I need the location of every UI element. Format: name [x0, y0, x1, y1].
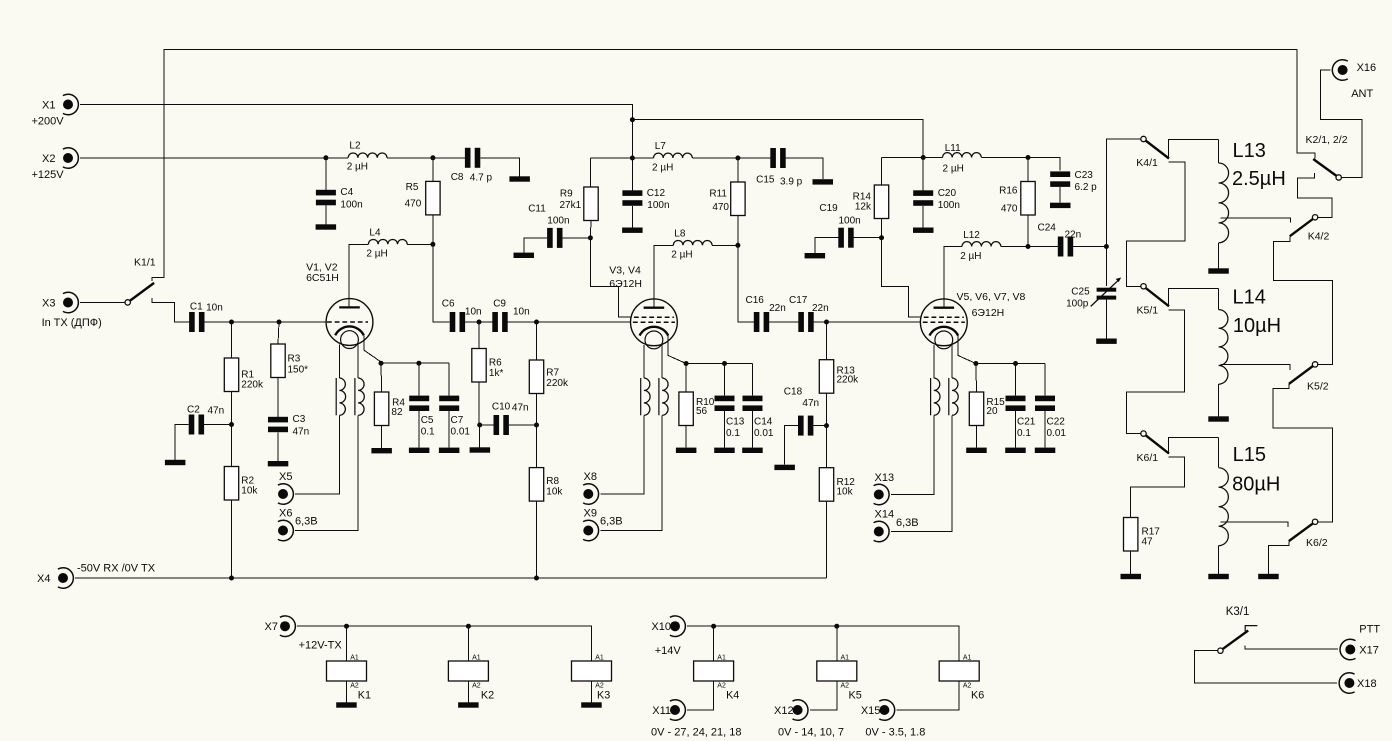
inductor L15 [1219, 444, 1281, 546]
wire cathode V3 [668, 336, 686, 364]
svg-text:220k: 220k [546, 378, 569, 389]
wire +14V rail [687, 626, 959, 661]
wire K4/1 contact to L13 [1169, 140, 1219, 159]
wire K5/2 cascade to K6/2 [1273, 384, 1332, 522]
capacitor C25 variable [1066, 278, 1121, 310]
svg-text:PTT: PTT [1359, 624, 1380, 636]
svg-text:10µH: 10µH [1233, 315, 1281, 337]
ground R4 [371, 448, 392, 453]
node C21 top [1013, 361, 1018, 366]
wire C11 right [563, 237, 591, 239]
wire K3/1 pivot to X18 [1195, 651, 1338, 683]
relay coil K3 [572, 655, 612, 702]
resistor R14 [853, 185, 889, 219]
ground R6 node [470, 447, 491, 452]
ground R17 [1121, 574, 1142, 579]
wire X15 to K6 [897, 681, 960, 710]
wire C3 to ground [277, 432, 279, 461]
switch K1/1 [125, 256, 156, 305]
resistor R16 [999, 182, 1035, 216]
svg-text:X4: X4 [37, 573, 50, 585]
svg-text:L14: L14 [1233, 287, 1266, 309]
capacitor C23 [1050, 170, 1097, 193]
svg-text:X2: X2 [42, 153, 55, 165]
capacitor C13 [715, 396, 745, 439]
connector X17 PTT [1340, 624, 1380, 660]
wire C12 stems [631, 158, 633, 228]
svg-text:C5: C5 [421, 415, 434, 426]
switch K6/2 [1289, 519, 1328, 549]
svg-text:C13: C13 [726, 416, 745, 427]
svg-text:X17: X17 [1359, 644, 1379, 656]
wire C21 stems [1015, 364, 1017, 448]
connector X11 [651, 700, 742, 739]
svg-text:C14: C14 [754, 416, 773, 427]
svg-text:X12: X12 [774, 705, 794, 717]
svg-text:X16: X16 [1357, 62, 1377, 74]
svg-text:C1: C1 [190, 302, 203, 313]
svg-text:K1/1: K1/1 [134, 256, 156, 268]
svg-text:0V - 27, 24, 21, 18: 0V - 27, 24, 21, 18 [651, 727, 742, 739]
svg-text:0.1: 0.1 [726, 428, 740, 439]
wire C22 stems [1044, 364, 1046, 448]
wire K1 stub [346, 626, 348, 661]
svg-text:L8: L8 [674, 229, 686, 240]
filament choke V3 right [659, 378, 668, 415]
resistor R5 [405, 181, 440, 215]
wire C10 to R7R8 node [509, 424, 537, 426]
svg-text:R1: R1 [241, 369, 254, 380]
wire X2 node to L2 [326, 157, 348, 159]
svg-text:A2: A2 [717, 683, 726, 690]
switch K3/1 [1218, 606, 1250, 653]
svg-text:470: 470 [712, 202, 729, 213]
connector X12 [774, 700, 844, 739]
svg-text:6С51Н: 6С51Н [306, 272, 339, 284]
wire cathode rail stage1 [381, 362, 449, 364]
resistor R4 [374, 392, 405, 426]
wire R11 stems [738, 158, 754, 322]
svg-text:R11: R11 [709, 189, 727, 200]
ground C14 [742, 448, 763, 453]
svg-text:K4/2: K4/2 [1308, 231, 1330, 243]
svg-text:2 µH: 2 µH [652, 162, 673, 173]
wire heater to X8 X9 [601, 415, 663, 530]
resistor R3 [271, 344, 308, 378]
wire R4 stems [380, 363, 383, 448]
connector X18 [1339, 673, 1376, 694]
svg-text:100n: 100n [340, 199, 362, 210]
node L2 C4 X2 [323, 155, 328, 160]
wire R12 stems [826, 426, 828, 578]
svg-text:2 µH: 2 µH [943, 164, 964, 175]
node R1 top [229, 320, 234, 325]
connector X5 [278, 471, 293, 505]
ground C8 [509, 176, 530, 181]
svg-text:10n: 10n [513, 307, 530, 318]
svg-text:K3/1: K3/1 [1226, 606, 1250, 618]
svg-text:X6: X6 [279, 507, 292, 519]
wire R5 node to C8 [433, 157, 465, 159]
wire C2 to ground [175, 425, 189, 460]
relay coil K2 [448, 655, 494, 702]
svg-text:10k: 10k [837, 487, 854, 498]
svg-text:K6/2: K6/2 [1306, 537, 1328, 549]
svg-text:X1: X1 [42, 100, 55, 112]
wire L12 right [1001, 246, 1028, 248]
node R6 C10 ground [477, 423, 482, 428]
node K5 coil [834, 624, 839, 629]
svg-text:K2: K2 [481, 690, 494, 702]
svg-text:2 µH: 2 µH [671, 250, 692, 261]
svg-text:10n: 10n [206, 302, 223, 313]
tube V3 V4 6Э12Н [609, 264, 677, 349]
wire L13 tap [1221, 218, 1291, 222]
wire C18 to ground [785, 426, 798, 465]
node C2 R1 R2 [229, 422, 234, 427]
wire K6/1 contact to L15 [1169, 437, 1219, 454]
svg-text:+200V: +200V [32, 116, 65, 128]
svg-text:K4/1: K4/1 [1136, 157, 1158, 169]
svg-text:C24: C24 [1038, 223, 1057, 234]
svg-text:C11: C11 [528, 203, 546, 214]
node K2 coil [466, 624, 471, 629]
capacitor C17 [789, 295, 829, 332]
svg-text:47: 47 [1142, 537, 1154, 548]
wire RX bypass top rail [152, 49, 1315, 281]
svg-text:X9: X9 [584, 507, 597, 519]
wire C19 to ground [815, 238, 838, 253]
wire C8 to ground [480, 158, 519, 177]
resistor R7 [529, 360, 569, 394]
capacitor C21 [1006, 396, 1036, 439]
ground R15 [966, 448, 987, 453]
wire R6 node to ground [479, 425, 481, 447]
svg-text:-50V RX /0V TX: -50V RX /0V TX [77, 563, 156, 575]
svg-text:C22: C22 [1047, 416, 1066, 427]
filament choke V3 left [641, 378, 650, 415]
resistor R15 [969, 392, 1005, 426]
svg-text:C10: C10 [492, 401, 511, 412]
wire R15 stems [975, 364, 978, 448]
switch K3/1 upper contact [1245, 626, 1257, 632]
ground C4 [316, 224, 337, 229]
wire R5 node down to C6 [433, 244, 450, 322]
svg-text:X14: X14 [875, 508, 895, 520]
wire L14 bottom stem [1218, 384, 1220, 416]
ground C23 [1050, 203, 1071, 208]
svg-text:C17: C17 [789, 295, 808, 306]
switch K6/1 [1137, 431, 1170, 464]
svg-text:X11: X11 [652, 705, 671, 717]
svg-text:6,3B: 6,3B [295, 516, 318, 528]
svg-text:X10: X10 [651, 621, 671, 633]
filament choke V1 left [336, 378, 345, 415]
svg-text:L11: L11 [945, 143, 961, 154]
svg-text:K2/1, 2/2: K2/1, 2/2 [1306, 134, 1348, 146]
svg-text:A1: A1 [472, 655, 481, 662]
inductor L8 [671, 229, 712, 261]
filament choke V5 left [931, 378, 940, 415]
wire R10 stems [685, 364, 687, 448]
svg-text:R5: R5 [406, 182, 419, 193]
inductor L11 [943, 143, 982, 175]
wire K1/1 lower contact to C1 [152, 298, 190, 322]
resistor R11 [709, 182, 745, 216]
node R9 C11 [588, 235, 593, 240]
capacitor C6 [442, 299, 482, 332]
capacitor C3 [268, 414, 309, 437]
svg-text:0V - 14, 10, 7: 0V - 14, 10, 7 [778, 727, 844, 739]
wire L4 to anode V1 [349, 244, 368, 307]
svg-text:10k: 10k [546, 487, 563, 498]
svg-text:C20: C20 [938, 188, 957, 199]
wire C16-C17 [769, 321, 798, 323]
wire screen V5 [882, 238, 921, 317]
relay coil K4 [694, 655, 740, 702]
wire R6 stems [479, 322, 494, 425]
svg-text:C2: C2 [187, 405, 200, 416]
svg-text:A1: A1 [841, 655, 850, 662]
svg-text:C6: C6 [442, 299, 455, 310]
svg-text:100n: 100n [938, 200, 960, 211]
svg-text:100n: 100n [647, 200, 669, 211]
connector X14 6,3B [874, 508, 919, 542]
svg-text:12k: 12k [855, 202, 872, 213]
svg-text:47n: 47n [208, 406, 225, 417]
node R16 top [1026, 155, 1031, 160]
svg-text:C4: C4 [340, 187, 353, 198]
wire L12 to anode V5 [944, 247, 962, 308]
wire heater to X5 [295, 415, 358, 530]
wire cathode rail stage2 [686, 363, 752, 365]
node K1 coil [344, 624, 349, 629]
svg-text:20: 20 [986, 406, 998, 417]
wire K5 stub [836, 626, 838, 661]
node R13 top [824, 320, 829, 325]
svg-text:6Э12Н: 6Э12Н [972, 307, 1005, 319]
wire X3 to K1/1 [80, 302, 125, 304]
wire C1 to grid V1 [205, 321, 327, 323]
wire L8 right [712, 244, 738, 246]
svg-text:0.01: 0.01 [451, 426, 471, 437]
wire K4 stub [713, 626, 715, 661]
ground C2 [165, 460, 186, 465]
resistor R13 [819, 360, 859, 394]
node rail R8 [534, 576, 539, 581]
wire heater leads V3 [644, 345, 662, 378]
resistor R9 [560, 187, 599, 221]
svg-text:X3: X3 [42, 298, 55, 310]
node R13 C18 R12 [824, 423, 829, 428]
svg-text:22n: 22n [812, 303, 829, 314]
wire C17 to V5 grid [814, 321, 921, 323]
svg-text:R16: R16 [999, 186, 1018, 197]
wire screen V3 [590, 238, 630, 317]
wire L11 right [981, 157, 1028, 159]
inductor L14 [1219, 287, 1282, 385]
node C5 top [416, 361, 421, 366]
capacitor C20 [913, 188, 960, 211]
connector X13 [874, 472, 894, 505]
svg-text:K5/2: K5/2 [1307, 381, 1329, 393]
svg-text:R9: R9 [560, 189, 573, 200]
ground C13 [714, 448, 735, 453]
connector X1 +200V [32, 94, 79, 127]
wire L14 tap [1221, 364, 1291, 370]
wire L7 left [632, 157, 653, 159]
svg-text:2 µH: 2 µH [960, 251, 981, 262]
svg-text:L13: L13 [1233, 140, 1266, 162]
inductor L12 [960, 230, 1001, 262]
svg-text:C19: C19 [819, 203, 838, 214]
svg-text:0V - 3.5, 1.8: 0V - 3.5, 1.8 [865, 727, 925, 739]
svg-text:100p: 100p [1066, 298, 1089, 309]
wire C19 right [854, 237, 882, 239]
node R7 R8 C10 [534, 423, 539, 428]
wire C4 stems [325, 158, 327, 225]
svg-text:K6: K6 [971, 690, 984, 702]
wire K5/1 cascade to K6/1 [1127, 310, 1185, 434]
wire K5/1 contact to L14 [1169, 289, 1219, 307]
svg-text:X18: X18 [1357, 678, 1377, 690]
ground L13 [1208, 268, 1229, 273]
svg-text:V5, V6, V7, V8: V5, V6, V7, V8 [957, 291, 1026, 303]
capacitor C15 [756, 148, 803, 188]
wire R9 top [590, 158, 632, 187]
connector X2 +125V [32, 148, 79, 181]
wire R13 stems [826, 322, 828, 426]
capacitor C5 [409, 396, 435, 438]
ground R10 [676, 448, 697, 453]
svg-text:47n: 47n [293, 426, 310, 437]
svg-text:ANT: ANT [1351, 88, 1373, 100]
capacitor C14 [743, 396, 774, 439]
node L12 R16 C24 [1026, 244, 1031, 249]
wire X16 to K2/1 [1321, 70, 1362, 178]
wire K2 to ground [467, 681, 469, 702]
svg-text:C15: C15 [756, 175, 775, 186]
capacitor C11 [528, 203, 569, 248]
wire L14 top stem [1218, 289, 1220, 310]
ground K2 [458, 702, 479, 707]
wire heater leads V5 [934, 345, 952, 378]
svg-text:470: 470 [1001, 204, 1018, 215]
svg-text:X13: X13 [875, 472, 895, 484]
node L11 +200V [921, 155, 926, 160]
wire C13 stems [724, 364, 726, 448]
capacitor C9 [492, 299, 529, 332]
svg-text:A1: A1 [595, 655, 604, 662]
wire L7 right [692, 157, 738, 159]
svg-text:A2: A2 [472, 683, 481, 690]
capacitor C4 [316, 187, 363, 210]
node C13 top [722, 361, 727, 366]
connector X4 -50V [37, 563, 156, 589]
wire K2 stub [467, 626, 469, 661]
resistor R8 [529, 468, 563, 502]
node cathode V5 [973, 361, 978, 366]
capacitor C18 [784, 387, 819, 436]
svg-text:X7: X7 [265, 621, 278, 633]
connector X8 [583, 471, 598, 505]
svg-text:2 µH: 2 µH [366, 249, 387, 260]
svg-text:K5: K5 [849, 690, 862, 702]
svg-text:R3: R3 [288, 354, 301, 365]
node cathode V3 [684, 361, 689, 366]
wire heater to X13 X14 [891, 415, 952, 531]
node R3 top [277, 320, 282, 325]
svg-text:X5: X5 [279, 471, 292, 483]
wire C5 stems [418, 363, 420, 447]
wire R17 to ground [1130, 551, 1132, 574]
wire K6/1 cascade to R17 [1131, 457, 1185, 517]
node R6 top [477, 320, 482, 325]
svg-text:K3: K3 [597, 690, 610, 702]
ground C19 [805, 253, 826, 258]
svg-text:10n: 10n [465, 307, 482, 318]
ground K3 [581, 702, 602, 707]
relay coil K6 [939, 655, 984, 702]
wire X12 to K5 [810, 681, 837, 710]
wire C2 junction [204, 424, 231, 426]
wire R3 stems [278, 322, 279, 417]
wire R2 stems [231, 425, 233, 579]
wire +12V-TX rail [297, 626, 591, 661]
svg-text:2.5µH: 2.5µH [1232, 168, 1286, 190]
ground L14 [1208, 416, 1229, 421]
node rail R2 [229, 576, 234, 581]
svg-text:C9: C9 [493, 299, 506, 310]
connector X16 ANT [1332, 60, 1376, 100]
switch K5/2 [1289, 362, 1329, 393]
ground C25 [1096, 339, 1117, 344]
svg-text:C12: C12 [647, 188, 666, 199]
wire cathode rail stage3 [976, 363, 1045, 365]
svg-text:C8: C8 [451, 172, 464, 183]
svg-text:L2: L2 [349, 140, 361, 151]
node cathode V1 [379, 361, 384, 366]
svg-text:80µH: 80µH [1232, 474, 1280, 496]
resistor R1 [224, 358, 264, 392]
svg-text:82: 82 [391, 407, 403, 418]
wire K6/2 to ground [1269, 541, 1290, 573]
wire C15 left [738, 157, 770, 159]
wire R16 stems [1027, 158, 1029, 247]
svg-text:56: 56 [696, 406, 708, 417]
capacitor C19 [819, 203, 860, 248]
svg-text:150*: 150* [288, 365, 309, 376]
wire R7 stems [536, 322, 538, 425]
wire C6-C9 [465, 321, 492, 323]
wire L2 to R5 node [387, 157, 433, 159]
resistor R17 [1124, 518, 1161, 552]
svg-text:10k: 10k [241, 486, 258, 497]
switch K5/1 [1137, 284, 1170, 317]
resistor R2 [224, 467, 258, 501]
inductor L13 [1219, 140, 1286, 243]
svg-text:6,3B: 6,3B [896, 517, 919, 529]
svg-text:100n: 100n [839, 216, 861, 227]
inductor L2 [347, 140, 387, 172]
wire L4 right [407, 243, 433, 245]
svg-text:C23: C23 [1075, 170, 1094, 181]
ground C11 [514, 253, 535, 258]
wire C14 stems [752, 364, 754, 448]
svg-text:R7: R7 [546, 368, 559, 379]
svg-text:C25: C25 [1071, 287, 1090, 298]
node L7 +200V [630, 156, 635, 161]
